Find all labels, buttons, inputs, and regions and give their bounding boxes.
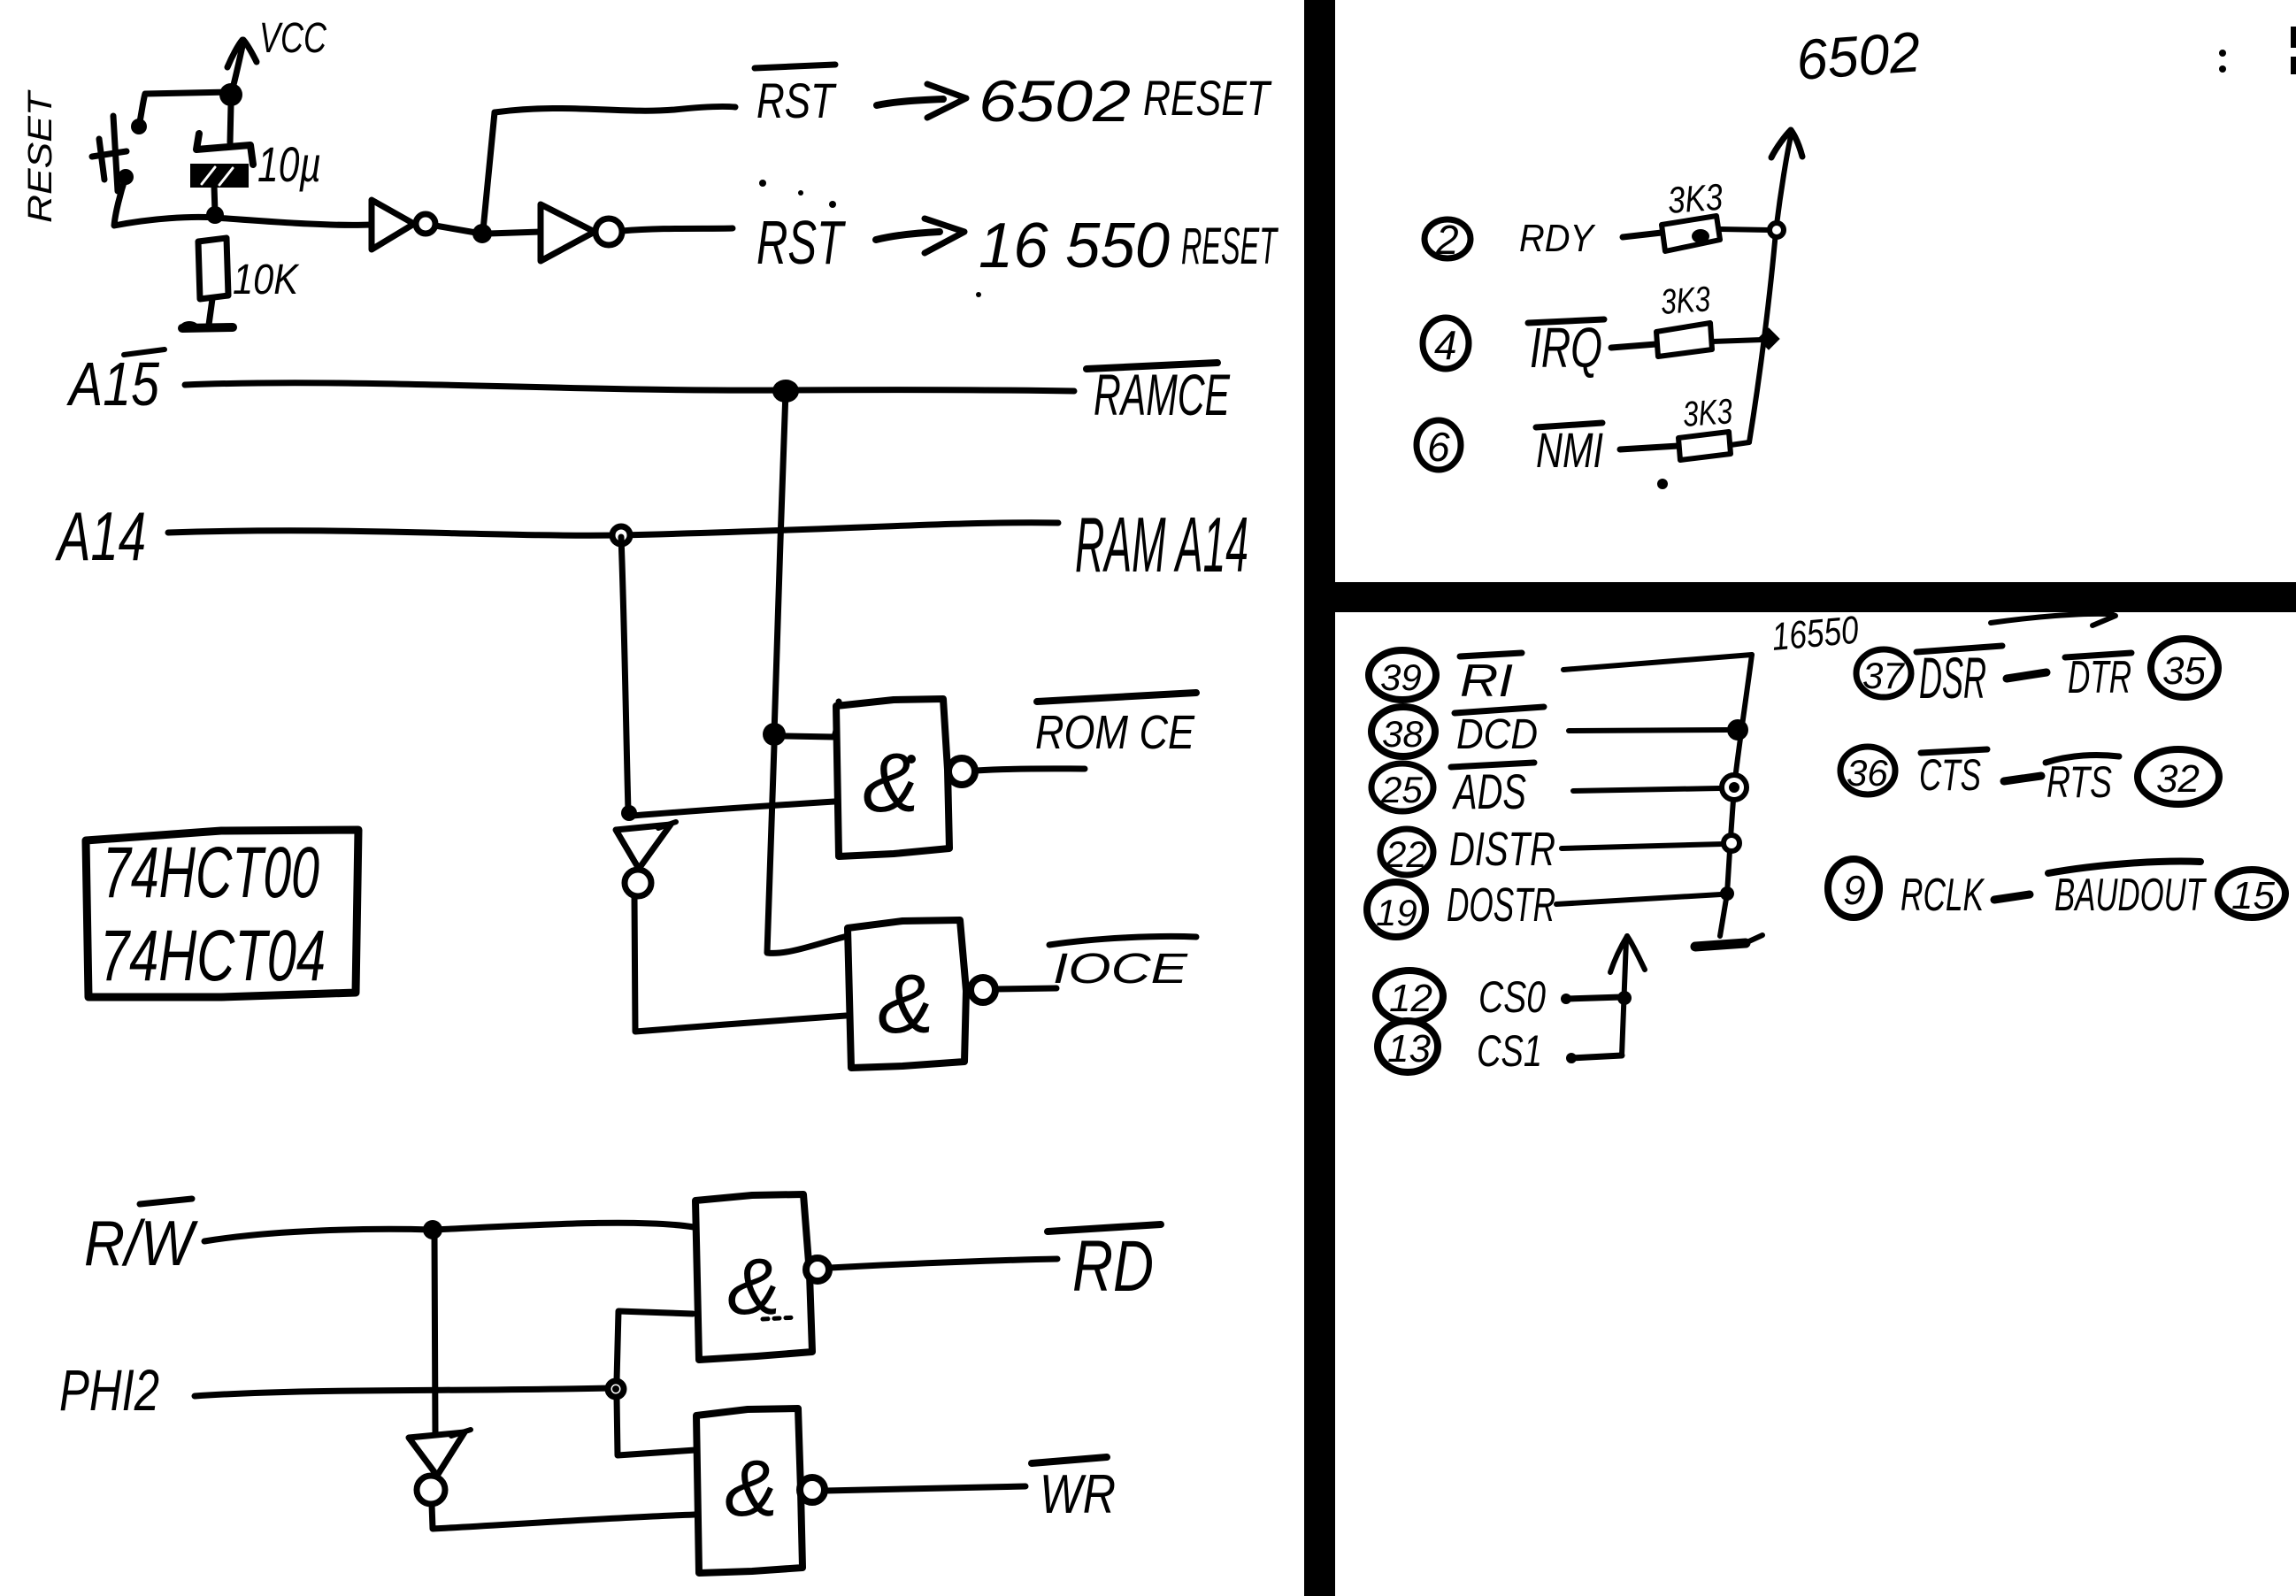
node CS junction dot — [1617, 991, 1632, 1005]
node A14 junction ring — [612, 526, 630, 544]
pin circle 39 — [1369, 650, 1436, 700]
wire junction to U2B — [488, 232, 541, 234]
label A15 overline tick — [124, 349, 165, 355]
label CTS overline — [1921, 749, 1987, 753]
wire ROMCE out — [976, 769, 1085, 771]
wire CS1 — [1566, 1053, 1622, 1063]
svg-text:39: 39 — [1380, 656, 1422, 698]
capacitor C1 top plate — [196, 134, 253, 165]
wire ADS to rail — [1573, 788, 1720, 791]
pin circle 12 — [1376, 971, 1443, 1022]
svg-text:PHI2: PHI2 — [59, 1357, 159, 1423]
dash CTS-RTS — [2004, 776, 2041, 781]
pin circle 9 — [1828, 859, 1879, 917]
wire NMI to R4 — [1620, 446, 1678, 449]
pushbutton SW1 — [92, 116, 147, 191]
svg-text:22: 22 — [1385, 833, 1427, 875]
svg-text:13: 13 — [1387, 1027, 1431, 1070]
power VCC symbol — [227, 40, 257, 95]
node DCD junction dot — [1727, 719, 1748, 740]
speck dots — [759, 180, 981, 297]
svg-text:4: 4 — [1434, 322, 1457, 368]
label IRQ overline — [1528, 319, 1604, 323]
svg-text:IOCE: IOCE — [1053, 946, 1188, 993]
svg-text:74HCT04: 74HCT04 — [100, 916, 326, 996]
label RAMCE overline — [1087, 363, 1217, 369]
svg-text:3K3: 3K3 — [1660, 280, 1712, 322]
wire A15 junction down to ROMCE node — [774, 391, 786, 734]
wire PHI2 — [195, 1388, 610, 1396]
nand gate U1D box — [696, 1408, 802, 1573]
node VCC junction dot — [219, 83, 242, 106]
capacitor C1 bottom plate (hatched) — [192, 165, 247, 186]
pin circle 19 — [1367, 882, 1425, 937]
svg-text:3K3: 3K3 — [1682, 392, 1734, 434]
speck below R4 — [1657, 479, 1668, 489]
svg-text:DISTR: DISTR — [1449, 823, 1555, 876]
wire IRQ to R3 — [1611, 344, 1656, 348]
wire A14 junction down — [621, 537, 628, 810]
pin circle 4 — [1423, 318, 1469, 369]
box 74HCT00 74HCT04 — [86, 830, 358, 997]
svg-text:2: 2 — [1435, 217, 1459, 263]
resistor R4 3K3 — [1678, 432, 1731, 460]
svg-text:&: & — [878, 957, 933, 1051]
wire DCD to rail — [1569, 730, 1727, 731]
wire R/W to U1C — [204, 1223, 694, 1241]
svg-text:32: 32 — [2156, 757, 2200, 801]
svg-text:6502: 6502 — [979, 68, 1131, 134]
resistor R1 — [198, 238, 228, 299]
wire R1 to ground — [209, 299, 212, 325]
wire A15 bus — [185, 383, 1074, 391]
svg-text:25: 25 — [1380, 769, 1423, 810]
node A14 lower junction dot — [621, 805, 637, 821]
svg-text:16 550: 16 550 — [979, 211, 1170, 281]
wire junction to U1A top input — [785, 702, 840, 737]
label ADS overline — [1451, 763, 1534, 767]
inverter U2C (A14) — [616, 822, 676, 896]
pin circle 38 — [1371, 707, 1435, 756]
pin circle 37 — [1856, 649, 1911, 697]
wire PHI2 up to U1C lower input — [617, 1311, 693, 1381]
svg-text:ROM CE: ROM CE — [1035, 706, 1195, 759]
arrow swoosh top — [1991, 607, 2116, 625]
pin circle 15 — [2218, 870, 2285, 917]
label RTS overline — [2046, 755, 2119, 763]
label RD overline — [1048, 1224, 1161, 1232]
nand gate U1B box — [848, 920, 966, 1068]
node PHI2 junction — [608, 1381, 624, 1397]
pin circle 32 — [2138, 749, 2219, 804]
svg-text:RAMCE: RAMCE — [1094, 362, 1231, 427]
label NMI overline — [1536, 423, 1602, 427]
wire junction up to RST row — [483, 112, 495, 230]
wire RD out — [830, 1259, 1057, 1268]
wire A14 to U1A input — [633, 802, 834, 816]
nand gate U1D output bubble — [800, 1477, 825, 1502]
svg-text:6: 6 — [1427, 424, 1450, 470]
dash DSR-DTR — [2007, 672, 2046, 679]
svg-text:A14: A14 — [55, 497, 146, 575]
wire DOSTR to rail — [1556, 894, 1721, 904]
wire RI to rail — [1563, 655, 1752, 670]
pin circle 35 — [2151, 639, 2218, 697]
svg-text:&: & — [863, 736, 918, 830]
wire 16550 rail vertical — [1720, 655, 1752, 936]
svg-text:CS0: CS0 — [1478, 972, 1546, 1022]
pin circle 13 — [1378, 1021, 1438, 1072]
resistor R2 3K3 — [1662, 216, 1720, 251]
svg-text:RD: RD — [1072, 1226, 1154, 1307]
wire U2C out down and to U1B lower input — [634, 896, 846, 1032]
wire WR out — [825, 1486, 1025, 1491]
svg-text:DTR: DTR — [2068, 652, 2131, 703]
svg-text:3K3: 3K3 — [1666, 176, 1724, 221]
nand gate U1A dot — [907, 755, 916, 763]
node ROMCE input junction dot — [763, 723, 786, 746]
label WR overline — [1032, 1457, 1107, 1463]
wire VCC node to C1 — [230, 104, 231, 142]
nand gate U1A box — [836, 699, 949, 856]
svg-text:37: 37 — [1862, 655, 1905, 696]
resistor R3 3K3 — [1656, 323, 1712, 357]
svg-text:BAUDOUT: BAUDOUT — [2054, 870, 2207, 921]
pin circle 6 — [1417, 420, 1461, 470]
node DOSTR junction dot — [1720, 886, 1734, 901]
label R/W overline — [140, 1199, 192, 1204]
arrow row1 — [877, 84, 966, 118]
svg-text:38: 38 — [1382, 713, 1424, 755]
svg-text:10µ: 10µ — [257, 136, 321, 192]
pin circle 25 — [1371, 763, 1433, 811]
svg-text:R/W: R/W — [84, 1209, 198, 1279]
svg-text:RTS: RTS — [2046, 757, 2112, 807]
node RDY rail junction ring — [1770, 223, 1784, 237]
svg-text:9: 9 — [1843, 867, 1866, 913]
label IOCE overline — [1049, 936, 1196, 945]
wire SW1 top to VCC node — [139, 92, 228, 127]
nand gate U1B output bubble — [971, 978, 995, 1002]
wire U2B out — [622, 228, 733, 231]
svg-text:IRQ: IRQ — [1530, 316, 1602, 380]
wire IOCE out — [996, 988, 1056, 989]
nand gate U1C smudge — [763, 1317, 796, 1319]
wire R2 to rail — [1720, 229, 1770, 230]
svg-text:19: 19 — [1376, 892, 1417, 933]
wire A14 bus — [168, 523, 1058, 535]
svg-text:10K: 10K — [233, 257, 300, 303]
label DTR overline — [2065, 653, 2131, 657]
label DSR overline — [1916, 646, 2002, 652]
nand gate U1A output bubble — [948, 758, 975, 785]
svg-text:NMI: NMI — [1536, 422, 1603, 478]
pin circle 22 — [1380, 829, 1433, 875]
svg-text:DOSTR: DOSTR — [1447, 879, 1555, 932]
svg-text:VCC: VCC — [259, 15, 326, 62]
svg-text:16550: 16550 — [1770, 609, 1861, 659]
power arrow CS pullup — [1610, 936, 1645, 1055]
wire DISTR to rail — [1562, 844, 1724, 848]
svg-text:12: 12 — [1389, 977, 1432, 1020]
svg-text:RESET: RESET — [1181, 218, 1279, 275]
nand gate U1C box — [695, 1194, 812, 1360]
wire RST row horizontal — [495, 106, 735, 112]
wire CS0 — [1561, 994, 1622, 1004]
label DCD overline — [1455, 707, 1544, 713]
wire PHI2 down to U1D upper input — [617, 1397, 695, 1455]
pin circle 36 — [1840, 747, 1895, 794]
svg-text:&: & — [725, 1445, 778, 1533]
node IRQ rail junction dot — [1757, 327, 1779, 349]
svg-text:ADS: ADS — [1452, 763, 1526, 819]
node RST junction dot — [472, 224, 492, 243]
svg-text:RST: RST — [756, 73, 837, 128]
svg-text:A15: A15 — [66, 349, 160, 418]
svg-text:RESET: RESET — [1143, 70, 1272, 126]
wire SW1 bottom through RC node to inverter input — [114, 177, 372, 226]
pin circle 2 — [1424, 217, 1471, 263]
svg-text:CS1: CS1 — [1477, 1026, 1542, 1076]
svg-text:35: 35 — [2162, 649, 2206, 693]
wire U2D out to U1D lower input — [432, 1504, 695, 1529]
svg-text:RST: RST — [756, 208, 846, 277]
edge marks top right — [2219, 27, 2296, 74]
ground — [180, 321, 233, 332]
label BAUDOUT overline — [2048, 862, 2200, 873]
wire R3 to rail — [1712, 340, 1762, 341]
svg-text:DCD: DCD — [1456, 711, 1538, 758]
label ROM CE overline — [1037, 693, 1196, 702]
power VCC rail 6502 — [1749, 130, 1802, 442]
dash RCLK-BAUDOUT — [1994, 894, 2030, 900]
divider vertical bar — [1304, 0, 1335, 1596]
svg-text:15: 15 — [2231, 874, 2275, 917]
svg-text:RAM A14: RAM A14 — [1075, 501, 1248, 588]
svg-text:WR: WR — [1040, 1464, 1116, 1525]
arrow row2 — [876, 219, 964, 253]
divider horizontal bar — [1335, 582, 2296, 612]
inverter U2A — [372, 200, 435, 249]
svg-text:RCLK: RCLK — [1901, 870, 1985, 921]
wire R/W junction down to U2D — [434, 1232, 435, 1435]
svg-text:CTS: CTS — [1919, 750, 1981, 800]
wire R4 to rail — [1731, 442, 1749, 445]
svg-text:RI: RI — [1460, 656, 1513, 707]
svg-text:RDY: RDY — [1519, 217, 1595, 260]
node ADS junction ringed dot — [1722, 775, 1747, 800]
inverter U2B — [541, 204, 622, 261]
svg-text:DSR: DSR — [1919, 645, 1986, 710]
wire U2A out to junction — [435, 226, 476, 233]
node R/W junction dot — [423, 1220, 442, 1239]
node DISTR junction ring — [1724, 835, 1739, 851]
svg-text:74HCT00: 74HCT00 — [103, 833, 319, 913]
svg-text:RESET: RESET — [22, 89, 59, 223]
svg-text:36: 36 — [1847, 752, 1888, 794]
wire RDY to R2 — [1623, 233, 1662, 237]
node RC junction dot — [206, 206, 224, 224]
label RST row1 overline — [755, 65, 835, 68]
svg-text:6502: 6502 — [1794, 19, 1923, 92]
wire C1 to junction — [214, 186, 215, 212]
wire A15 branch down to U1B — [767, 746, 848, 953]
node A15 junction dot — [772, 380, 799, 403]
label RI overline — [1460, 653, 1522, 656]
nand gate U1C output bubble — [806, 1258, 829, 1281]
ground 16550 — [1695, 935, 1762, 947]
inverter U2D (PHI2) — [409, 1430, 471, 1504]
